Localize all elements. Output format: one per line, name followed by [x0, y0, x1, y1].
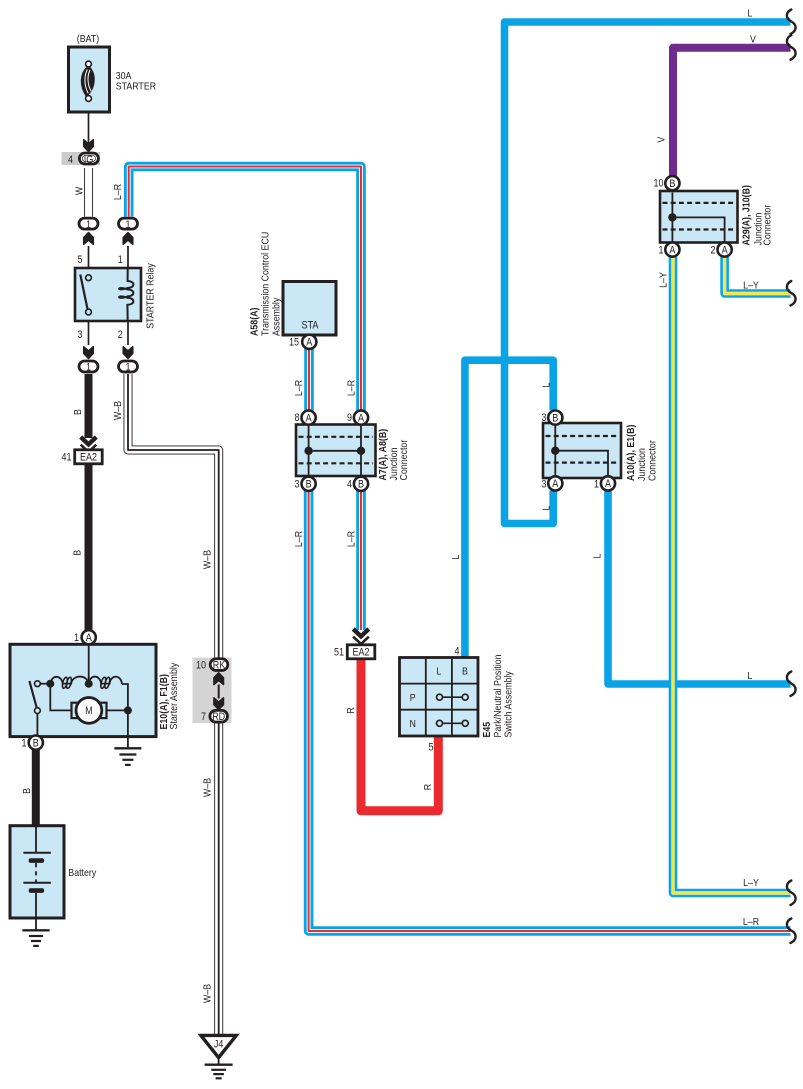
svg-text:A: A — [306, 337, 313, 349]
wire L-Y from A29 pin 2A down then right to break — [725, 257, 791, 294]
svg-text:IG: IG — [84, 154, 94, 166]
pin 3B of A10 — [542, 411, 563, 425]
pin 9A of A7 — [347, 411, 368, 425]
svg-text:A58(A): A58(A) — [250, 308, 261, 337]
svg-text:L: L — [541, 505, 552, 510]
svg-text:Assembly: Assembly — [272, 297, 283, 336]
svg-text:5: 5 — [78, 254, 83, 266]
svg-text:Transmission Control ECU: Transmission Control ECU — [261, 232, 272, 336]
svg-text:3: 3 — [78, 329, 83, 341]
svg-text:L–Y: L–Y — [743, 878, 759, 889]
break symbol L-R right bottom — [787, 919, 796, 944]
svg-text:B: B — [73, 409, 84, 415]
svg-text:1: 1 — [118, 254, 123, 266]
break symbol L-Y right lower — [787, 881, 796, 906]
svg-text:EA2: EA2 — [353, 647, 370, 659]
svg-text:Connector: Connector — [648, 440, 659, 481]
svg-text:L–R: L–R — [294, 530, 305, 547]
svg-text:1: 1 — [594, 478, 599, 490]
svg-text:P: P — [410, 693, 416, 704]
svg-text:B: B — [462, 667, 468, 678]
svg-text:B: B — [552, 412, 558, 424]
svg-text:B: B — [33, 737, 39, 749]
svg-text:(BAT): (BAT) — [77, 34, 99, 45]
svg-text:10: 10 — [196, 659, 206, 671]
svg-text:A7(A), A8(B): A7(A), A8(B) — [378, 429, 389, 481]
connector RK RD gray block — [193, 658, 232, 724]
pin 8A of A7 — [295, 411, 316, 425]
svg-text:15: 15 — [289, 337, 299, 349]
ground at battery — [22, 918, 49, 946]
wire L-R from A58 pin 15A down to A7 pin 8A — [304, 349, 314, 411]
pin 1A starter — [74, 630, 96, 644]
svg-text:A: A — [358, 412, 365, 424]
break symbol L right middle — [787, 672, 796, 697]
svg-text:L–R: L–R — [346, 530, 357, 547]
wire R red from EA2 51 down right up to E45 pin 5 — [361, 659, 438, 811]
svg-text:Connector: Connector — [763, 204, 774, 245]
connector 1 right above relay — [119, 218, 138, 244]
svg-text:2: 2 — [118, 329, 123, 341]
svg-text:STARTER: STARTER — [116, 82, 157, 93]
svg-text:L: L — [748, 9, 753, 20]
svg-text:E45: E45 — [482, 722, 493, 738]
svg-text:A10(A), E1(B): A10(A), E1(B) — [626, 425, 637, 481]
svg-text:B: B — [73, 550, 84, 556]
starter assembly E10(A) F1(B) — [10, 644, 156, 736]
svg-text:J4: J4 — [214, 1039, 224, 1051]
svg-text:4: 4 — [68, 154, 73, 166]
svg-text:A29(A), J10(B): A29(A), J10(B) — [742, 185, 753, 245]
svg-text:L: L — [436, 667, 441, 678]
svg-text:3: 3 — [295, 479, 300, 491]
wire W fuse IG to connector 1 — [84, 168, 93, 217]
junction connector A10(A) E1(B) — [543, 423, 621, 478]
svg-text:EA2: EA2 — [80, 452, 97, 464]
pin 1A of A10 — [594, 476, 615, 490]
pin 1B starter — [22, 736, 43, 750]
svg-text:3: 3 — [542, 478, 547, 490]
wire L-R from A7 pin 3B down and right to break — [309, 491, 791, 931]
svg-text:1: 1 — [22, 737, 27, 749]
svg-text:W–B: W–B — [113, 401, 124, 420]
svg-text:Starter Assembly: Starter Assembly — [169, 662, 180, 729]
svg-text:Connector: Connector — [399, 439, 410, 480]
pin 15A of A58 — [289, 335, 316, 349]
svg-text:M: M — [85, 705, 93, 717]
pin 1A of A29 — [659, 243, 680, 257]
wire L-Y from A29 pin 1A down to bottom right break — [673, 257, 791, 893]
pin 4B of A7 — [347, 477, 368, 491]
wire L-R from connector 1 up over to A7 pin 9A — [129, 167, 361, 411]
svg-text:L: L — [541, 382, 552, 387]
svg-text:1: 1 — [86, 361, 91, 373]
connector 1 left below relay — [79, 347, 98, 374]
battery — [10, 826, 64, 918]
svg-text:A: A — [86, 632, 93, 644]
wire thin from connector 1 arrows to relay pins 5 and 1 — [89, 246, 129, 268]
svg-text:8: 8 — [295, 412, 300, 424]
svg-text:B: B — [306, 479, 312, 491]
ECU A58(A) box — [283, 282, 336, 336]
svg-text:1: 1 — [126, 361, 131, 373]
ground J4 triangle — [201, 1035, 236, 1057]
svg-text:51: 51 — [334, 646, 344, 658]
svg-text:L: L — [748, 671, 753, 682]
break symbol L-Y right upper — [787, 281, 796, 306]
pin 10B of A29 — [654, 176, 680, 190]
wire L top horizontal and long left vertical (net L) — [505, 22, 791, 524]
svg-text:RD: RD — [212, 711, 225, 723]
wire thin from relay pins 3 and 2 to arrows — [89, 321, 129, 345]
connector 1 left above relay — [79, 218, 98, 244]
svg-text:10: 10 — [654, 178, 664, 190]
connector EA2 pin 51 with chevron arrows — [334, 629, 375, 659]
svg-text:L: L — [451, 554, 462, 559]
wire B thick from starter pin 1B to battery — [32, 750, 40, 827]
svg-text:30A: 30A — [116, 71, 132, 82]
svg-text:A: A — [605, 478, 612, 490]
svg-text:41: 41 — [62, 451, 72, 463]
svg-text:L–R: L–R — [294, 379, 305, 396]
pin 3B of A7 — [295, 477, 316, 491]
connector 1 right below relay — [119, 347, 138, 374]
svg-text:STARTER Relay: STARTER Relay — [145, 263, 156, 329]
junction connector A29(A) J10(B) — [660, 191, 738, 243]
svg-text:9: 9 — [347, 412, 352, 424]
svg-text:Battery: Battery — [68, 868, 97, 879]
svg-text:L–Y: L–Y — [743, 281, 759, 292]
ground at starter assembly — [114, 737, 141, 765]
svg-text:A: A — [722, 244, 729, 256]
svg-text:A: A — [306, 412, 313, 424]
svg-text:V: V — [657, 137, 668, 143]
break symbol L top right — [787, 10, 796, 35]
svg-text:Park/Neutral Position: Park/Neutral Position — [493, 654, 504, 737]
svg-text:B: B — [358, 479, 364, 491]
svg-text:B: B — [669, 178, 675, 190]
arrow down into IG — [84, 140, 94, 152]
connector EA2 pin 41 with chevron arrows — [62, 437, 103, 464]
svg-text:7: 7 — [201, 711, 206, 723]
svg-text:2: 2 — [711, 245, 716, 257]
svg-text:4: 4 — [347, 479, 352, 491]
svg-text:1: 1 — [86, 219, 91, 231]
svg-text:L–R: L–R — [743, 917, 760, 928]
wire thin from fuse to IG arrow — [88, 100, 90, 149]
svg-text:L: L — [592, 553, 603, 558]
svg-text:5: 5 — [429, 742, 434, 754]
wire B thick from EA2 41 to starter pin 1A — [85, 464, 93, 631]
svg-text:L–Y: L–Y — [658, 272, 669, 288]
svg-text:1: 1 — [74, 632, 79, 644]
svg-text:L–R: L–R — [113, 183, 124, 200]
wire L branch horizontal to E45 and A10 pin 3B — [465, 360, 553, 657]
svg-text:3: 3 — [542, 412, 547, 424]
svg-text:L–R: L–R — [346, 379, 357, 396]
wire B thick from connector 1 to EA2 41 — [85, 374, 93, 438]
svg-text:Switch Assembly: Switch Assembly — [504, 671, 515, 738]
wire L from A10 pin 1A down and right to break — [608, 491, 791, 685]
wire W-B from connector 1 below relay down to RK and RD to J4 — [128, 374, 219, 1036]
svg-text:W: W — [74, 187, 85, 195]
connector IG pin 4 — [62, 152, 101, 166]
pin 2A of A29 — [711, 243, 732, 257]
svg-text:W–B: W–B — [202, 778, 213, 797]
svg-text:4: 4 — [455, 646, 460, 658]
svg-text:B: B — [22, 788, 33, 794]
pin 3A of A10 — [542, 476, 563, 490]
svg-text:RK: RK — [213, 659, 226, 671]
svg-text:R: R — [346, 707, 357, 714]
svg-text:N: N — [410, 719, 416, 730]
svg-text:A: A — [552, 478, 559, 490]
svg-text:W–B: W–B — [202, 550, 213, 569]
svg-text:V: V — [750, 35, 756, 46]
junction connector A7(A) A8(B) — [296, 425, 376, 477]
fuse 30A STARTER — [69, 47, 110, 112]
svg-text:Junction: Junction — [637, 448, 648, 481]
svg-text:R: R — [423, 783, 434, 790]
svg-text:W–B: W–B — [202, 984, 213, 1003]
wire L-R from A7 pin 4B down to EA2 51 — [356, 491, 366, 630]
ground at J4 — [205, 1058, 233, 1079]
svg-text:1: 1 — [126, 219, 131, 231]
break symbol V right — [787, 35, 796, 60]
wire V purple from top right to A29 pin 10B — [673, 48, 791, 177]
switch E45 park neutral position — [400, 658, 479, 737]
svg-text:1: 1 — [659, 245, 664, 257]
svg-text:STA: STA — [302, 320, 320, 332]
svg-text:A: A — [669, 244, 676, 256]
relay STARTER Relay — [75, 254, 141, 341]
